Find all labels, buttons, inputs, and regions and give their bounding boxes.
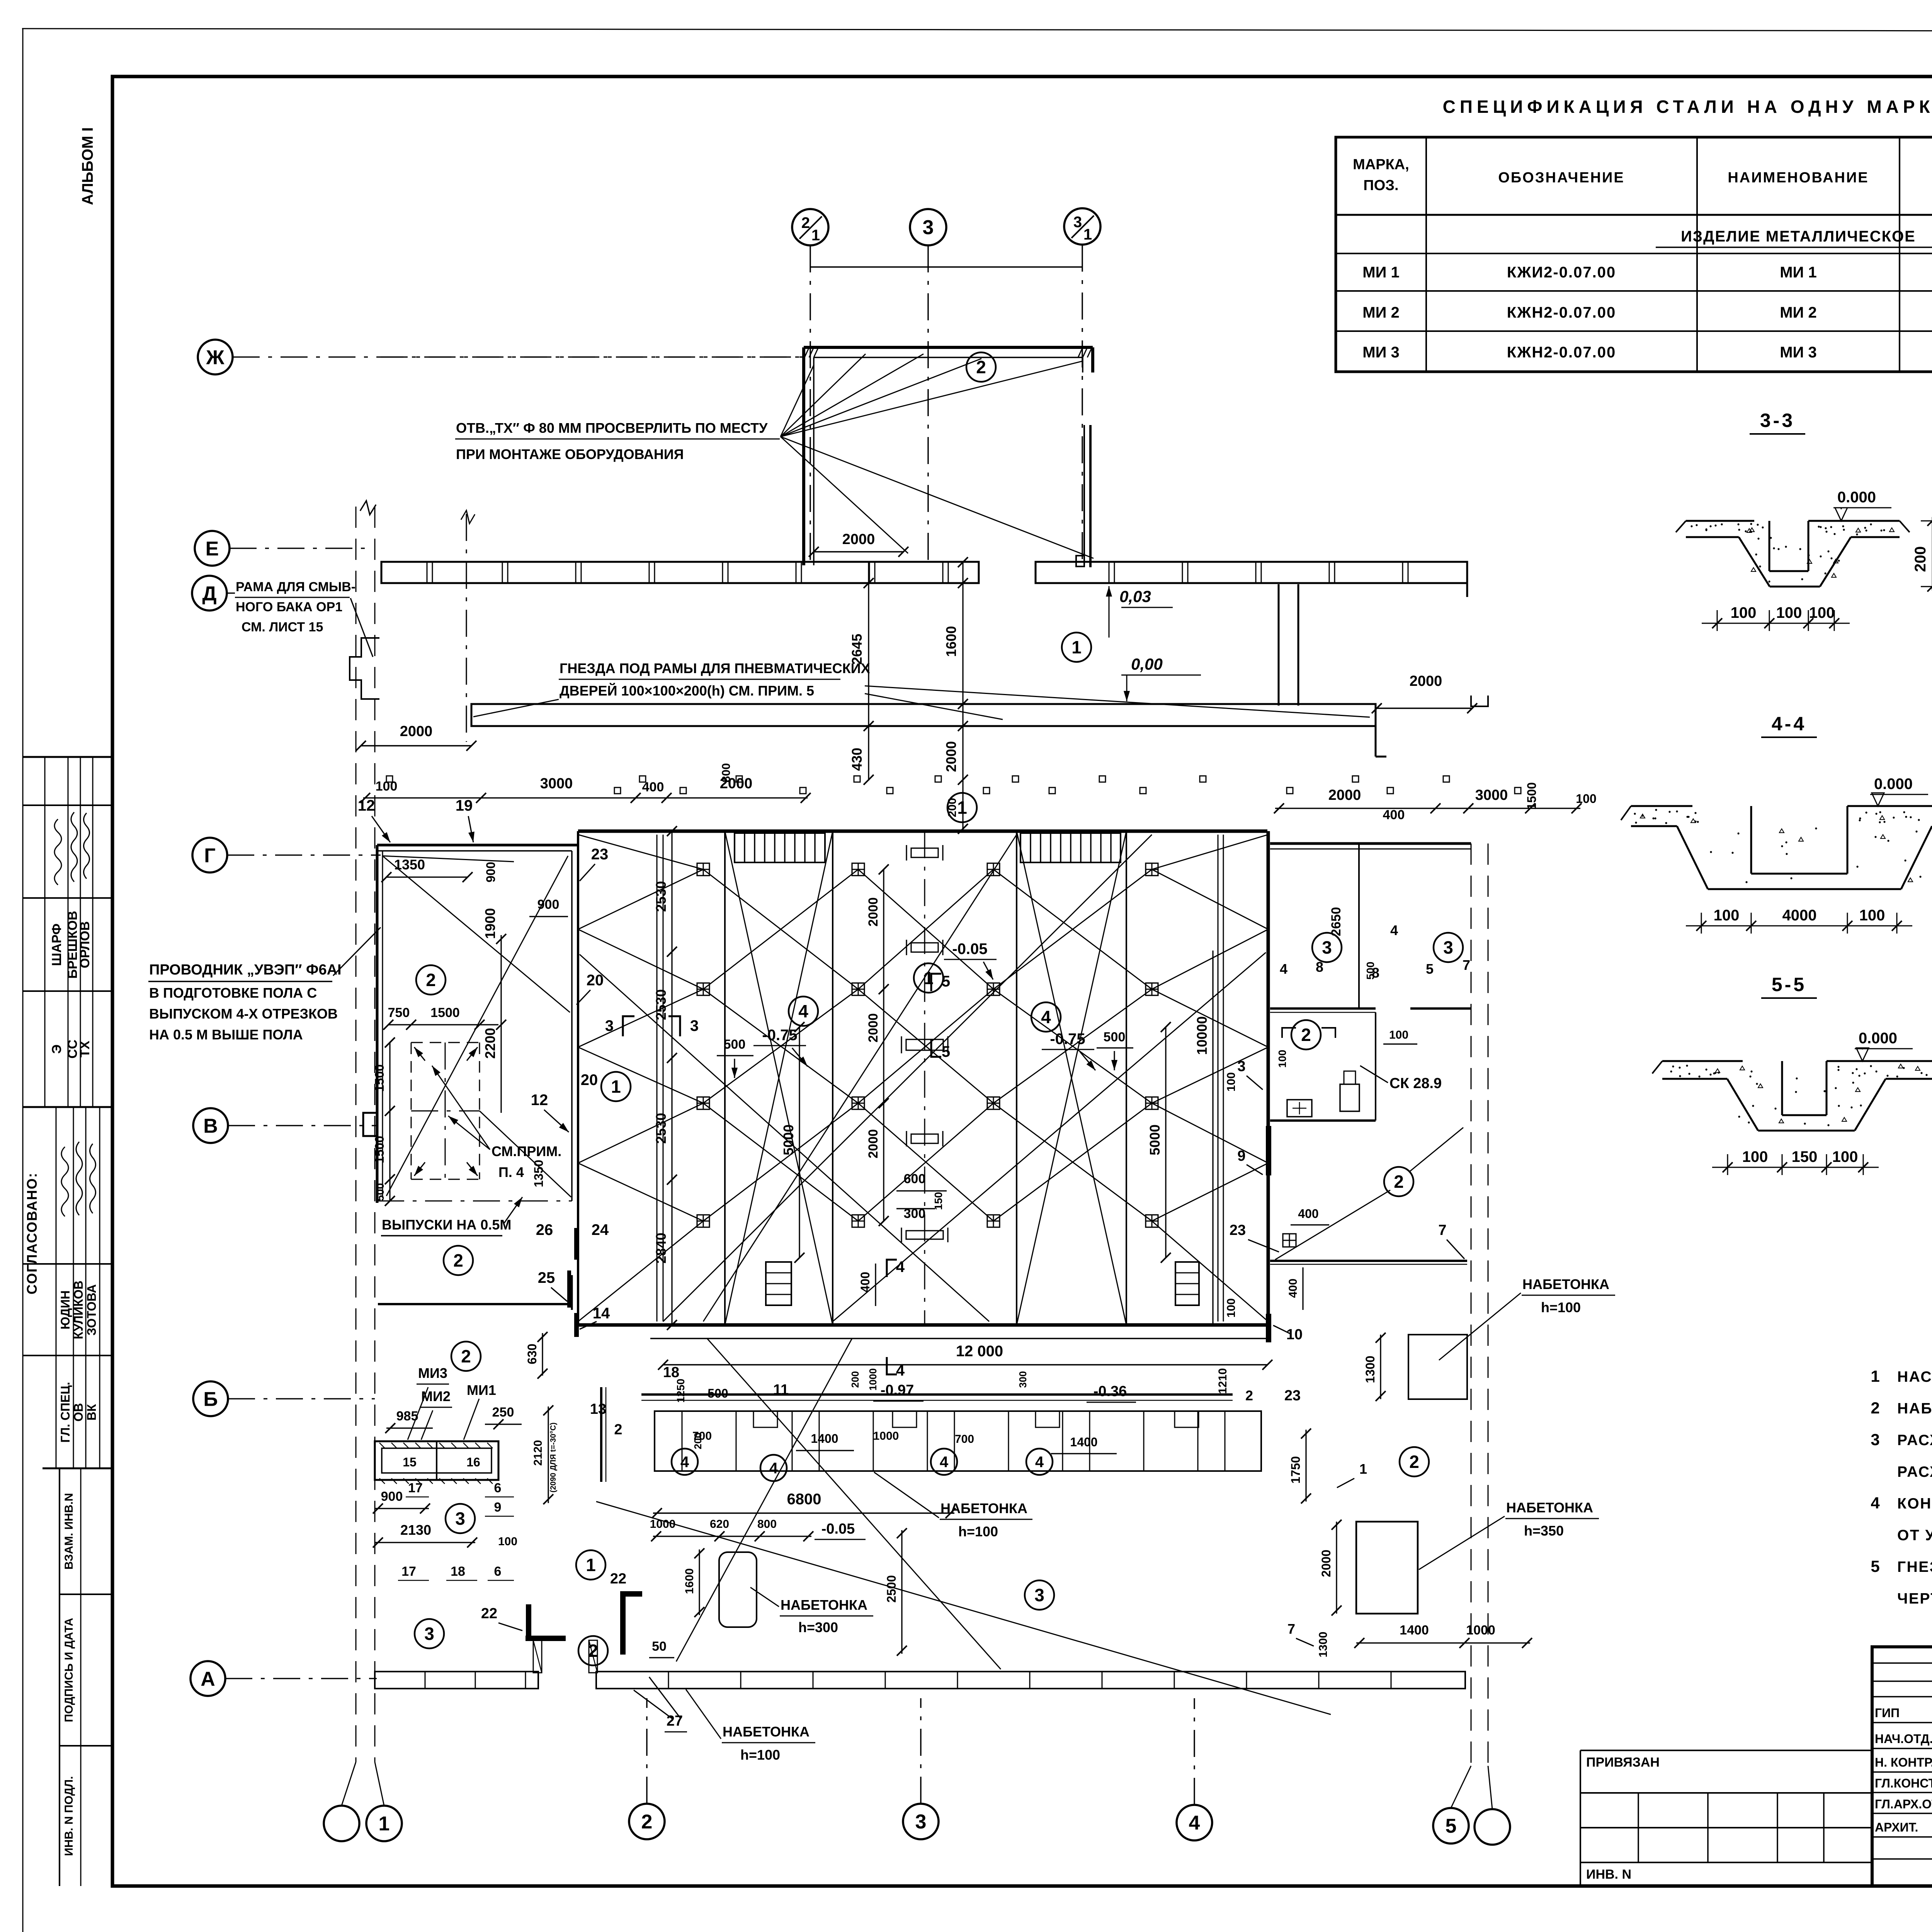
top room corner hatches — [804, 347, 809, 357]
socket row dims left — [363, 797, 808, 798]
door jambs — [533, 1640, 542, 1673]
svg-text:250: 250 — [492, 1405, 514, 1420]
svg-text:НАСТОЯЩИЙ ЛИСТ СМОТРЕТЬ СОВ: НАСТОЯЩИЙ ЛИСТ СМОТРЕТЬ СОВМЕСТНО С ЛИСТ… — [1897, 1368, 1932, 1385]
svg-text:6: 6 — [494, 1564, 502, 1579]
svg-text:0,03: 0,03 — [1119, 587, 1151, 605]
section 3-3 concrete stipple — [1737, 523, 1739, 525]
svg-text:20: 20 — [581, 1071, 598, 1088]
hooked walls — [526, 1604, 531, 1638]
svg-text:ТХ: ТХ — [78, 1041, 92, 1058]
bottom hall dashed diagonal crossing — [707, 1338, 1001, 1669]
svg-text:h=100: h=100 — [740, 1747, 780, 1763]
vertical dim chain 2645/430 — [868, 562, 869, 781]
section 3-3 bottom dims — [1702, 623, 1850, 624]
svg-text:3000: 3000 — [1475, 787, 1508, 803]
svg-text:12: 12 — [358, 797, 375, 814]
label circle 1 over hall — [947, 793, 977, 822]
wall piece near B axis — [600, 1387, 602, 1482]
svg-text:НАБЕТОНКА: НАБЕТОНКА — [940, 1500, 1027, 1516]
svg-text:АРХИТ.: АРХИТ. — [1875, 1820, 1918, 1834]
svg-text:ГНЕЗДА В ПОЛУ ДЛЯ УСТАНОВКИ: ГНЕЗДА В ПОЛУ ДЛЯ УСТАНОВКИ ТЕХНОЛОГИЧЕС… — [1897, 1559, 1932, 1575]
top room left wall — [802, 347, 805, 565]
top room top wall — [804, 346, 1093, 349]
svg-text:23: 23 — [591, 846, 609, 863]
svg-text:1: 1 — [611, 1077, 621, 1097]
left room walls — [377, 844, 578, 847]
svg-text:5: 5 — [942, 973, 950, 990]
axis Ж line extension — [381, 356, 804, 357]
corridor wall left — [378, 1303, 572, 1305]
svg-text:СМ. ЛИСТ 15: СМ. ЛИСТ 15 — [241, 620, 323, 634]
svg-text:400: 400 — [1298, 1207, 1318, 1221]
svg-text:ГЛ. СПЕЦ.: ГЛ. СПЕЦ. — [58, 1382, 72, 1442]
svg-text:4: 4 — [1390, 922, 1398, 938]
svg-text:100: 100 — [1832, 1148, 1858, 1165]
svg-text:100: 100 — [1225, 1072, 1238, 1092]
svg-text:22: 22 — [610, 1571, 626, 1587]
svg-text:1350: 1350 — [532, 1160, 546, 1187]
svg-text:22: 22 — [481, 1605, 497, 1622]
right block room circles — [1312, 933, 1342, 962]
svg-text:Э: Э — [49, 1044, 64, 1054]
svg-text:Ж: Ж — [206, 347, 225, 369]
svg-text:18: 18 — [451, 1564, 465, 1579]
svg-text:11: 11 — [773, 1382, 789, 1398]
svg-text:3: 3 — [1871, 1430, 1879, 1449]
axis circle 2 bottom — [629, 1804, 665, 1839]
svg-text:КОНТУР 3000×1500 „УВЭП″ Ф 1: КОНТУР 3000×1500 „УВЭП″ Ф 10 АI ОЦИНКОВА… — [1897, 1495, 1932, 1512]
svg-text:1: 1 — [1359, 1461, 1367, 1477]
svg-text:1210: 1210 — [1216, 1368, 1229, 1394]
section 5-5 bottom dims — [1712, 1167, 1879, 1168]
vertical dim chain 1600/2000/200 — [962, 562, 963, 831]
right block lower wall — [1270, 1260, 1467, 1262]
svg-text:2130: 2130 — [400, 1522, 431, 1538]
svg-text:12: 12 — [531, 1092, 548, 1109]
svg-text:3: 3 — [923, 216, 934, 239]
svg-text:13: 13 — [590, 1401, 606, 1417]
top axis circles 2/1 3 3/1 — [792, 209, 828, 245]
svg-text:1: 1 — [1871, 1367, 1879, 1385]
left margin stamp block — [23, 756, 112, 758]
uvep contour arrows — [414, 1047, 425, 1061]
svg-text:h=100: h=100 — [1541, 1299, 1581, 1315]
svg-text:1500: 1500 — [372, 1064, 386, 1092]
svg-text:2000: 2000 — [866, 1013, 881, 1043]
nabetonka pad rounded — [719, 1552, 757, 1627]
svg-text:3: 3 — [1443, 937, 1453, 957]
svg-text:ПРИ МОНТАЖЕ ОБОРУДОВАНИЯ: ПРИ МОНТАЖЕ ОБОРУДОВАНИЯ — [456, 446, 684, 462]
axis circle 5 bottom — [1433, 1808, 1469, 1844]
svg-text:-0.97: -0.97 — [881, 1382, 914, 1398]
MI boxes — [375, 1441, 498, 1480]
svg-text:ГЛ.АРХ.ОТ.: ГЛ.АРХ.ОТ. — [1875, 1797, 1932, 1811]
rama bracket on axis 1 — [350, 638, 379, 699]
label 25 tick — [571, 1275, 573, 1310]
section 4-4 concrete stipple — [1652, 817, 1654, 819]
level mark 0,03 — [1109, 586, 1110, 638]
gnezda sockets row — [386, 776, 393, 782]
svg-text:ОРЛОВ: ОРЛОВ — [78, 921, 92, 968]
svg-text:3: 3 — [1322, 937, 1332, 957]
svg-text:А: А — [201, 1668, 215, 1690]
hall label circles — [789, 997, 818, 1026]
svg-text:1000: 1000 — [867, 1368, 879, 1391]
svg-text:Б: Б — [203, 1388, 218, 1411]
title block outer — [1872, 1647, 1932, 1886]
hatched strips top — [735, 833, 825, 862]
axis circle blank bottom — [324, 1806, 359, 1841]
svg-text:4: 4 — [1280, 961, 1287, 977]
svg-text:2: 2 — [1394, 1172, 1404, 1192]
svg-text:2: 2 — [1245, 1388, 1253, 1403]
svg-text:МИ 1: МИ 1 — [1362, 264, 1399, 281]
svg-text:23: 23 — [1284, 1388, 1301, 1404]
big diagonal to nabetonka350 — [596, 1502, 1331, 1714]
svg-text:900: 900 — [381, 1489, 403, 1504]
svg-text:12 000: 12 000 — [956, 1343, 1003, 1360]
svg-text:1: 1 — [1071, 637, 1082, 657]
svg-text:15: 15 — [403, 1455, 417, 1469]
top axis dim line — [810, 266, 1082, 267]
svg-text:СПЕЦИФИКАЦИЯ СТАЛИ НА ОДНУ: СПЕЦИФИКАЦИЯ СТАЛИ НА ОДНУ МАРКУ — [1443, 97, 1932, 117]
right block top wall — [1270, 842, 1471, 845]
svg-text:2120: 2120 — [532, 1440, 544, 1466]
svg-text:100: 100 — [1714, 907, 1740, 924]
section 3-3 outline — [1686, 520, 1754, 522]
svg-text:1400: 1400 — [811, 1432, 838, 1446]
svg-text:1900: 1900 — [482, 908, 498, 939]
dashed axis jog — [1471, 696, 1488, 706]
hall center axis — [924, 831, 925, 1325]
svg-text:900: 900 — [537, 897, 560, 912]
svg-text:4-4: 4-4 — [1772, 713, 1806, 735]
svg-text:1000: 1000 — [650, 1518, 676, 1531]
top room mid wall — [1083, 425, 1085, 567]
svg-text:1600: 1600 — [683, 1568, 696, 1594]
svg-text:ГНЕЗДА ПОД РАМЫ ДЛЯ ПНЕВМАТИЧЕ: ГНЕЗДА ПОД РАМЫ ДЛЯ ПНЕВМАТИЧЕСКИХ — [560, 660, 870, 676]
hall rotated dims — [671, 831, 672, 1325]
svg-text:7: 7 — [1463, 957, 1470, 973]
svg-text:1300: 1300 — [1317, 1632, 1330, 1658]
svg-text:1600: 1600 — [943, 626, 959, 657]
svg-text:2840: 2840 — [653, 1233, 669, 1264]
svg-text:НАБЕТОНКА: НАБЕТОНКА — [723, 1724, 810, 1740]
svg-text:3: 3 — [1034, 1585, 1044, 1605]
axis circle А — [190, 1661, 225, 1696]
svg-text:3: 3 — [690, 1017, 699, 1034]
svg-text:1300: 1300 — [1363, 1355, 1377, 1383]
svg-text:-0.75: -0.75 — [1050, 1031, 1085, 1048]
right block mid wall — [1270, 1007, 1376, 1010]
svg-text:4: 4 — [896, 1259, 905, 1276]
svg-text:2000: 2000 — [1319, 1549, 1333, 1577]
svg-text:3000: 3000 — [540, 776, 573, 792]
svg-text:500: 500 — [724, 1037, 746, 1052]
center axis fittings — [911, 848, 938, 857]
svg-text:500: 500 — [1104, 1030, 1126, 1044]
svg-text:5000: 5000 — [781, 1124, 796, 1155]
svg-text:8: 8 — [1316, 959, 1323, 975]
svg-text:4: 4 — [769, 1460, 778, 1477]
svg-text:Д: Д — [202, 583, 216, 605]
svg-text:2: 2 — [453, 1250, 463, 1270]
svg-text:100: 100 — [1225, 1298, 1238, 1318]
svg-text:100: 100 — [498, 1535, 517, 1548]
svg-text:620: 620 — [710, 1518, 729, 1531]
svg-text:1500: 1500 — [1525, 782, 1539, 810]
svg-text:НАБЕТОНКА: НАБЕТОНКА — [1506, 1500, 1593, 1515]
svg-text:985: 985 — [396, 1409, 418, 1423]
dim 2000 left — [361, 745, 471, 746]
svg-text:h=300: h=300 — [798, 1619, 838, 1635]
svg-text:0.000: 0.000 — [1837, 489, 1876, 506]
svg-text:500: 500 — [1364, 962, 1376, 980]
svg-text:400: 400 — [858, 1272, 872, 1292]
left room dims — [388, 1024, 498, 1025]
floor slab band — [471, 704, 1376, 726]
svg-text:МАРКА,: МАРКА, — [1353, 156, 1409, 173]
svg-text:4: 4 — [1035, 1454, 1044, 1471]
svg-text:ПРИВЯЗАН: ПРИВЯЗАН — [1586, 1755, 1660, 1770]
hall partitions — [656, 835, 658, 1321]
break-marked axis vertical — [466, 514, 467, 742]
svg-text:2000: 2000 — [400, 723, 433, 740]
svg-text:МИ2: МИ2 — [421, 1388, 451, 1404]
label circle 2 long leader — [1384, 1167, 1413, 1196]
section 5-5 outline — [1662, 1060, 1743, 1062]
hall long cross diagonals — [663, 835, 1152, 1321]
axis circle Б — [193, 1381, 228, 1416]
wall tick bars — [574, 1228, 579, 1260]
lintel band left — [381, 562, 979, 583]
label circles 2 left block — [416, 965, 446, 995]
svg-text:10: 10 — [1286, 1327, 1303, 1343]
svg-text:3: 3 — [915, 1811, 927, 1833]
svg-text:2: 2 — [1871, 1399, 1879, 1417]
svg-text:3-3: 3-3 — [1760, 410, 1795, 431]
svg-text:ИНВ. N ПОДЛ.: ИНВ. N ПОДЛ. — [63, 1776, 75, 1856]
nabetonka rect right — [1408, 1335, 1467, 1399]
svg-text:2530: 2530 — [653, 989, 669, 1020]
corridor line below hall — [650, 1338, 1267, 1339]
svg-text:КЖН2-0.07.00: КЖН2-0.07.00 — [1507, 304, 1616, 321]
svg-text:100: 100 — [1576, 792, 1596, 806]
svg-text:100: 100 — [1276, 1050, 1288, 1068]
svg-text:ШАРФ: ШАРФ — [49, 923, 64, 966]
svg-text:Г: Г — [204, 845, 215, 867]
svg-text:МИ1: МИ1 — [467, 1382, 496, 1398]
svg-text:ОБОЗНАЧЕНИЕ: ОБОЗНАЧЕНИЕ — [1498, 170, 1624, 186]
svg-text:ВЫПУСКИ НА 0.5М: ВЫПУСКИ НА 0.5М — [382, 1217, 511, 1233]
hall diagonal bracing — [703, 869, 858, 989]
left room wall jog at V axis — [363, 1113, 377, 1136]
svg-text:НАБЕТОНКА ИЗ БЕТОНА МАРКИ: НАБЕТОНКА ИЗ БЕТОНА МАРКИ М 100. — [1897, 1400, 1932, 1417]
svg-text:ВЗАМ. ИНВ.N: ВЗАМ. ИНВ.N — [63, 1493, 75, 1570]
svg-text:300: 300 — [1017, 1371, 1029, 1388]
dashed wall top break mark — [360, 501, 376, 515]
svg-text:1: 1 — [379, 1813, 390, 1835]
svg-text:7: 7 — [1287, 1621, 1295, 1637]
svg-text:СОГЛАСОВАНО:: СОГЛАСОВАНО: — [24, 1172, 40, 1294]
svg-text:1750: 1750 — [1289, 1456, 1303, 1483]
svg-text:630: 630 — [525, 1344, 539, 1364]
svg-text:700: 700 — [955, 1433, 974, 1446]
right wall thick bars — [1266, 1126, 1271, 1175]
axis circle 1 bottom — [366, 1806, 402, 1841]
label circle 2 top room — [966, 352, 996, 382]
lintel band right — [1036, 562, 1467, 583]
hall ladders — [766, 1262, 791, 1305]
svg-text:-0.36: -0.36 — [1094, 1383, 1127, 1400]
svg-text:1500: 1500 — [372, 1136, 386, 1163]
svg-text:27: 27 — [667, 1713, 683, 1729]
svg-text:5000: 5000 — [1147, 1124, 1163, 1155]
svg-text:100: 100 — [376, 779, 398, 794]
svg-text:3: 3 — [455, 1509, 465, 1529]
svg-text:НАЧ.ОТД.: НАЧ.ОТД. — [1875, 1732, 1932, 1746]
svg-text:50: 50 — [652, 1639, 667, 1654]
svg-text:430: 430 — [849, 748, 865, 771]
svg-text:КУЛИКОВ: КУЛИКОВ — [71, 1281, 85, 1339]
svg-text:П. 4: П. 4 — [498, 1164, 524, 1180]
section 3-3 depth dim 200 — [1921, 520, 1932, 522]
svg-text:НА 0.5 М ВЫШЕ ПОЛА: НА 0.5 М ВЫШЕ ПОЛА — [149, 1027, 303, 1043]
svg-text:НОГО БАКА ОР1: НОГО БАКА ОР1 — [236, 600, 342, 614]
svg-text:h=100: h=100 — [958, 1524, 998, 1539]
svg-text:0.000: 0.000 — [1859, 1030, 1897, 1047]
bottom wall band A row — [375, 1672, 538, 1689]
svg-text:2: 2 — [1409, 1452, 1419, 1472]
svg-text:МИ 1: МИ 1 — [1780, 264, 1816, 281]
svg-text:1500: 1500 — [430, 1005, 460, 1020]
svg-text:16: 16 — [466, 1455, 480, 1469]
svg-text:СК 28.9: СК 28.9 — [1389, 1075, 1442, 1092]
svg-text:10000: 10000 — [1194, 1016, 1210, 1055]
right block partition — [1358, 844, 1360, 1009]
svg-text:ПОДПИСЬ И ДАТА: ПОДПИСЬ И ДАТА — [63, 1618, 75, 1722]
svg-text:5: 5 — [942, 1043, 950, 1060]
svg-text:2000: 2000 — [1410, 673, 1442, 689]
svg-text:19: 19 — [456, 797, 473, 814]
svg-text:17: 17 — [401, 1564, 416, 1579]
svg-text:4: 4 — [1041, 1007, 1051, 1027]
svg-text:1: 1 — [586, 1555, 596, 1575]
svg-text:0,00: 0,00 — [1131, 655, 1163, 673]
svg-text:25: 25 — [538, 1269, 555, 1286]
svg-text:0.000: 0.000 — [1874, 776, 1913, 793]
svg-text:1000: 1000 — [873, 1430, 899, 1442]
svg-text:h=350: h=350 — [1524, 1523, 1564, 1539]
svg-text:2000: 2000 — [1328, 787, 1361, 803]
svg-text:6800: 6800 — [787, 1491, 821, 1508]
axis circle Д — [192, 576, 227, 611]
svg-text:ОВ: ОВ — [71, 1403, 85, 1422]
stamp signatures (upper) — [54, 819, 61, 885]
svg-text:20: 20 — [587, 972, 604, 989]
svg-text:14: 14 — [593, 1305, 610, 1322]
svg-text:200: 200 — [1912, 546, 1929, 572]
svg-text:ВК: ВК — [85, 1404, 99, 1420]
svg-text:НАБЕТОНКА: НАБЕТОНКА — [781, 1597, 867, 1613]
svg-text:МИ 2: МИ 2 — [1362, 304, 1399, 321]
svg-text:1: 1 — [1083, 226, 1092, 243]
B row wall — [641, 1393, 1233, 1396]
svg-text:400: 400 — [1383, 808, 1405, 822]
top room right stub wall — [1082, 357, 1083, 372]
svg-text:2: 2 — [614, 1422, 622, 1438]
svg-text:-0.05: -0.05 — [952, 940, 987, 957]
svg-text:-0.05: -0.05 — [821, 1521, 855, 1537]
svg-text:3: 3 — [1237, 1058, 1245, 1075]
stall block — [655, 1411, 1261, 1471]
svg-text:2530: 2530 — [653, 1113, 669, 1144]
svg-text:2: 2 — [461, 1346, 471, 1366]
svg-text:2000: 2000 — [866, 897, 881, 927]
svg-text:800: 800 — [757, 1518, 777, 1531]
axis circle blank bottom — [1475, 1809, 1510, 1845]
svg-text:700: 700 — [692, 1430, 712, 1442]
svg-text:6: 6 — [494, 1481, 502, 1495]
svg-text:100: 100 — [1742, 1148, 1768, 1165]
svg-text:100: 100 — [1731, 604, 1757, 621]
svg-text:1: 1 — [957, 798, 967, 818]
svg-text:МИ 2: МИ 2 — [1780, 304, 1816, 321]
svg-text:Е: Е — [206, 538, 219, 560]
svg-text:100: 100 — [1809, 604, 1835, 621]
svg-text:5: 5 — [1446, 1815, 1457, 1837]
otv TX leader fan — [781, 365, 814, 437]
svg-text:1400: 1400 — [1400, 1623, 1429, 1638]
svg-text:2000: 2000 — [943, 741, 959, 772]
svg-text:400: 400 — [642, 780, 664, 794]
svg-text:600: 600 — [904, 1172, 926, 1186]
svg-text:РАСХОД ОЦИНКОВАННОЙ АРМАТУР: РАСХОД ОЦИНКОВАННОЙ АРМАТУРЫ Ф 10 АI - 8… — [1897, 1463, 1932, 1480]
section 4-4 outline — [1631, 805, 1692, 807]
svg-text:ИЗДЕЛИЕ МЕТАЛЛИЧЕСКОЕ: ИЗДЕЛИЕ МЕТАЛЛИЧЕСКОЕ — [1681, 228, 1916, 245]
svg-text:17: 17 — [408, 1481, 423, 1495]
axis circle Ж — [198, 340, 233, 374]
svg-text:В: В — [203, 1115, 218, 1138]
svg-text:5-5: 5-5 — [1772, 974, 1806, 995]
svg-text:РАСХОД АРМАТУРЫ Ф6 АI ДЛЯ: РАСХОД АРМАТУРЫ Ф6 АI ДЛЯ ПРОВОДНИКА „УВ… — [1897, 1432, 1932, 1449]
svg-text:ПОЗ.: ПОЗ. — [1363, 177, 1398, 194]
svg-text:100: 100 — [1859, 907, 1885, 924]
svg-text:ЗОТОВА: ЗОТОВА — [85, 1284, 99, 1336]
svg-text:-0.75: -0.75 — [762, 1027, 797, 1044]
svg-text:100: 100 — [1776, 604, 1802, 621]
svg-text:9: 9 — [494, 1500, 502, 1515]
svg-text:2000: 2000 — [866, 1129, 881, 1158]
uvep contour dashed rect — [411, 1042, 480, 1043]
svg-text:23: 23 — [1230, 1222, 1246, 1238]
svg-text:3: 3 — [605, 1017, 614, 1034]
svg-text:100: 100 — [1389, 1029, 1408, 1041]
axis circle 4 bottom — [1177, 1805, 1212, 1840]
svg-text:800: 800 — [720, 763, 733, 782]
svg-text:18: 18 — [663, 1364, 679, 1381]
right block bottom — [1400, 1447, 1429, 1476]
main hall walls — [578, 830, 1267, 833]
svg-text:АЛЬБОМ I: АЛЬБОМ I — [79, 127, 96, 205]
svg-text:НАИМЕНОВАНИЕ: НАИМЕНОВАНИЕ — [1728, 170, 1869, 186]
pillar under band — [1278, 584, 1280, 706]
dim 2000 right — [1377, 707, 1472, 709]
nabetonka 350 rect — [1356, 1522, 1418, 1614]
section 4-4 bottom dims — [1686, 925, 1912, 927]
svg-text:2530: 2530 — [653, 881, 669, 912]
svg-text:500: 500 — [707, 1386, 728, 1400]
